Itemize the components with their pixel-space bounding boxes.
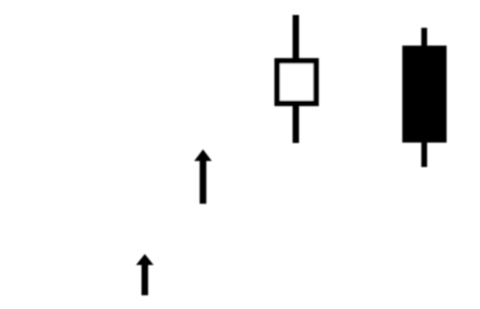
up arrow 1 (lower left) (136, 254, 154, 295)
filled candlestick: lower wick (421, 140, 427, 167)
filled candlestick: body (solid black) (402, 46, 446, 143)
up arrow 2 (middle) (194, 149, 212, 203)
hollow candlestick: upper wick (293, 15, 299, 60)
filled candlestick: upper wick (421, 28, 427, 48)
hollow candlestick: body (white with black border) (277, 61, 316, 104)
hollow candlestick: lower wick (293, 104, 299, 143)
